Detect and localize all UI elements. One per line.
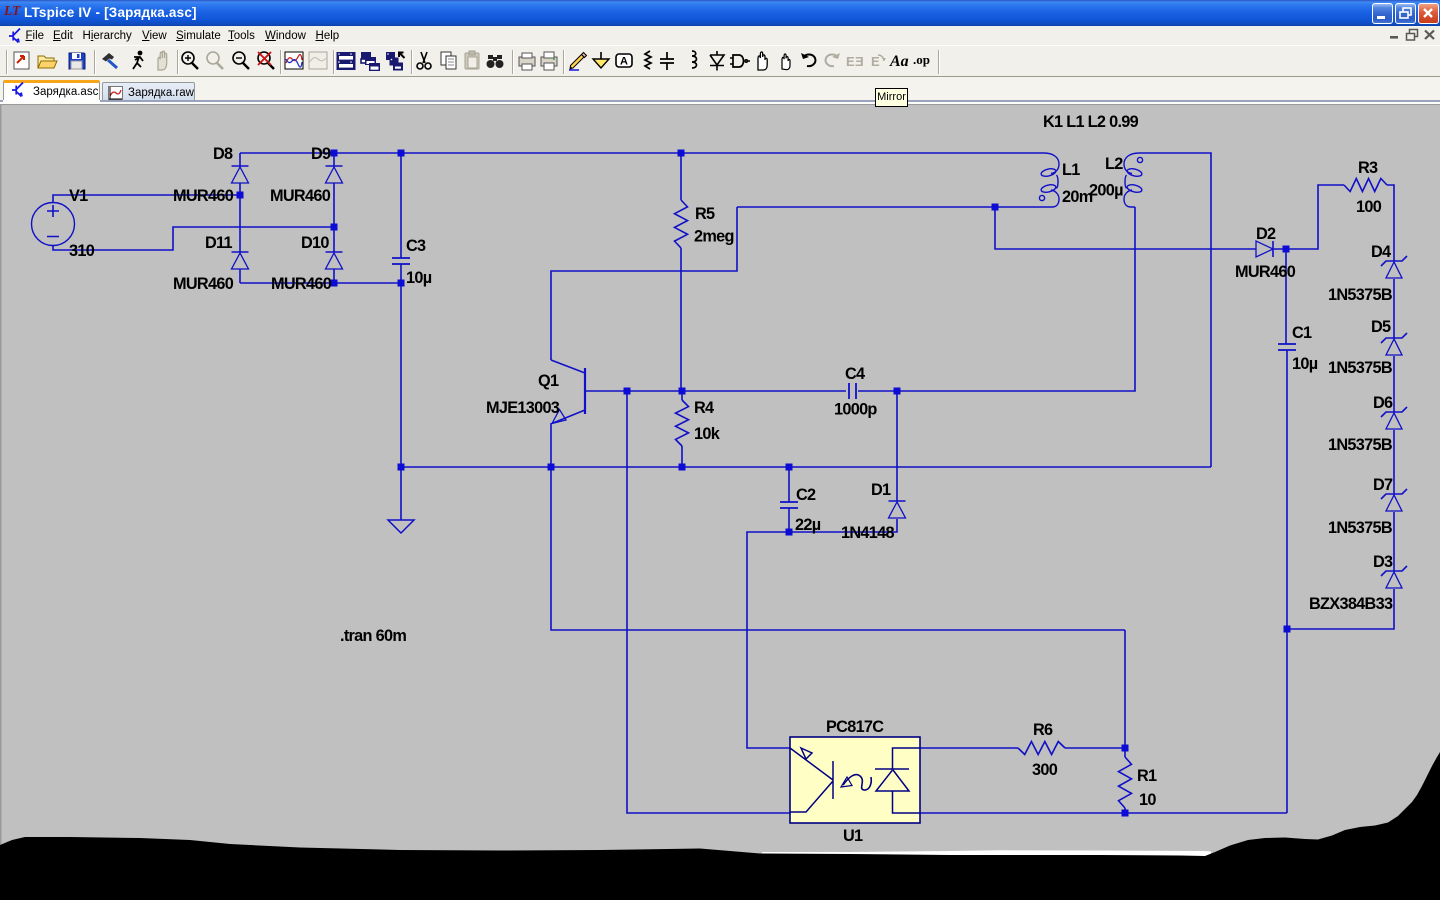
svg-text:1N4148: 1N4148: [841, 524, 894, 542]
svg-text:D6: D6: [1373, 394, 1393, 412]
svg-text:MUR460: MUR460: [271, 275, 332, 293]
svg-text:U1: U1: [843, 827, 863, 845]
svg-text:MUR460: MUR460: [173, 187, 234, 205]
svg-text:C2: C2: [796, 486, 816, 504]
svg-text:10µ: 10µ: [1292, 355, 1318, 373]
svg-text:E: E: [871, 54, 880, 69]
svg-text:1000p: 1000p: [834, 401, 877, 419]
svg-text:2meg: 2meg: [694, 228, 734, 246]
svg-text:1N5375B: 1N5375B: [1328, 359, 1393, 377]
svg-text:L1: L1: [1062, 161, 1080, 179]
svg-text:1N5375B: 1N5375B: [1328, 519, 1393, 537]
svg-text:1N5375B: 1N5375B: [1328, 436, 1393, 454]
svg-text:D3: D3: [1373, 553, 1393, 571]
svg-text:C4: C4: [845, 365, 865, 383]
svg-text:Aa: Aa: [889, 53, 909, 70]
svg-text:D2: D2: [1256, 225, 1276, 243]
svg-text:D10: D10: [301, 234, 329, 252]
svg-text:Ǝ: Ǝ: [855, 54, 864, 69]
svg-text:D9: D9: [311, 145, 331, 163]
svg-text:R1: R1: [1137, 767, 1157, 785]
svg-text:V1: V1: [69, 187, 88, 205]
svg-text:R3: R3: [1358, 159, 1378, 177]
svg-text:310: 310: [69, 242, 95, 260]
svg-text:Q1: Q1: [538, 372, 559, 390]
svg-text:22µ: 22µ: [795, 516, 821, 534]
svg-text:D4: D4: [1371, 243, 1391, 261]
svg-text:10k: 10k: [694, 425, 721, 443]
svg-text:PC817C: PC817C: [826, 718, 884, 736]
svg-text:100: 100: [1356, 198, 1382, 216]
svg-text:E: E: [846, 54, 855, 69]
svg-text:.op: .op: [913, 52, 930, 67]
svg-text:.tran 60m: .tran 60m: [340, 627, 406, 645]
svg-text:R4: R4: [694, 399, 714, 417]
svg-text:MUR460: MUR460: [270, 187, 331, 205]
svg-text:K1 L1 L2 0.99: K1 L1 L2 0.99: [1043, 113, 1139, 131]
svg-text:C1: C1: [1292, 324, 1312, 342]
svg-text:MUR460: MUR460: [1235, 263, 1296, 281]
svg-text:D7: D7: [1373, 476, 1393, 494]
svg-text:10: 10: [1139, 791, 1156, 809]
svg-text:10µ: 10µ: [406, 269, 432, 287]
svg-text:200µ: 200µ: [1089, 182, 1123, 200]
svg-text:MUR460: MUR460: [173, 275, 234, 293]
svg-text:D8: D8: [213, 145, 233, 163]
svg-text:A: A: [620, 56, 628, 68]
svg-text:MJE13003: MJE13003: [486, 399, 560, 417]
svg-text:1N5375B: 1N5375B: [1328, 286, 1393, 304]
svg-text:D1: D1: [871, 481, 891, 499]
svg-text:D5: D5: [1371, 318, 1391, 336]
svg-text:BZX384B33: BZX384B33: [1309, 595, 1393, 613]
svg-text:C3: C3: [406, 237, 426, 255]
svg-text:R6: R6: [1033, 721, 1053, 739]
svg-text:L2: L2: [1105, 155, 1123, 173]
svg-text:300: 300: [1032, 761, 1058, 779]
svg-text:R5: R5: [695, 205, 715, 223]
svg-text:D11: D11: [205, 234, 233, 252]
